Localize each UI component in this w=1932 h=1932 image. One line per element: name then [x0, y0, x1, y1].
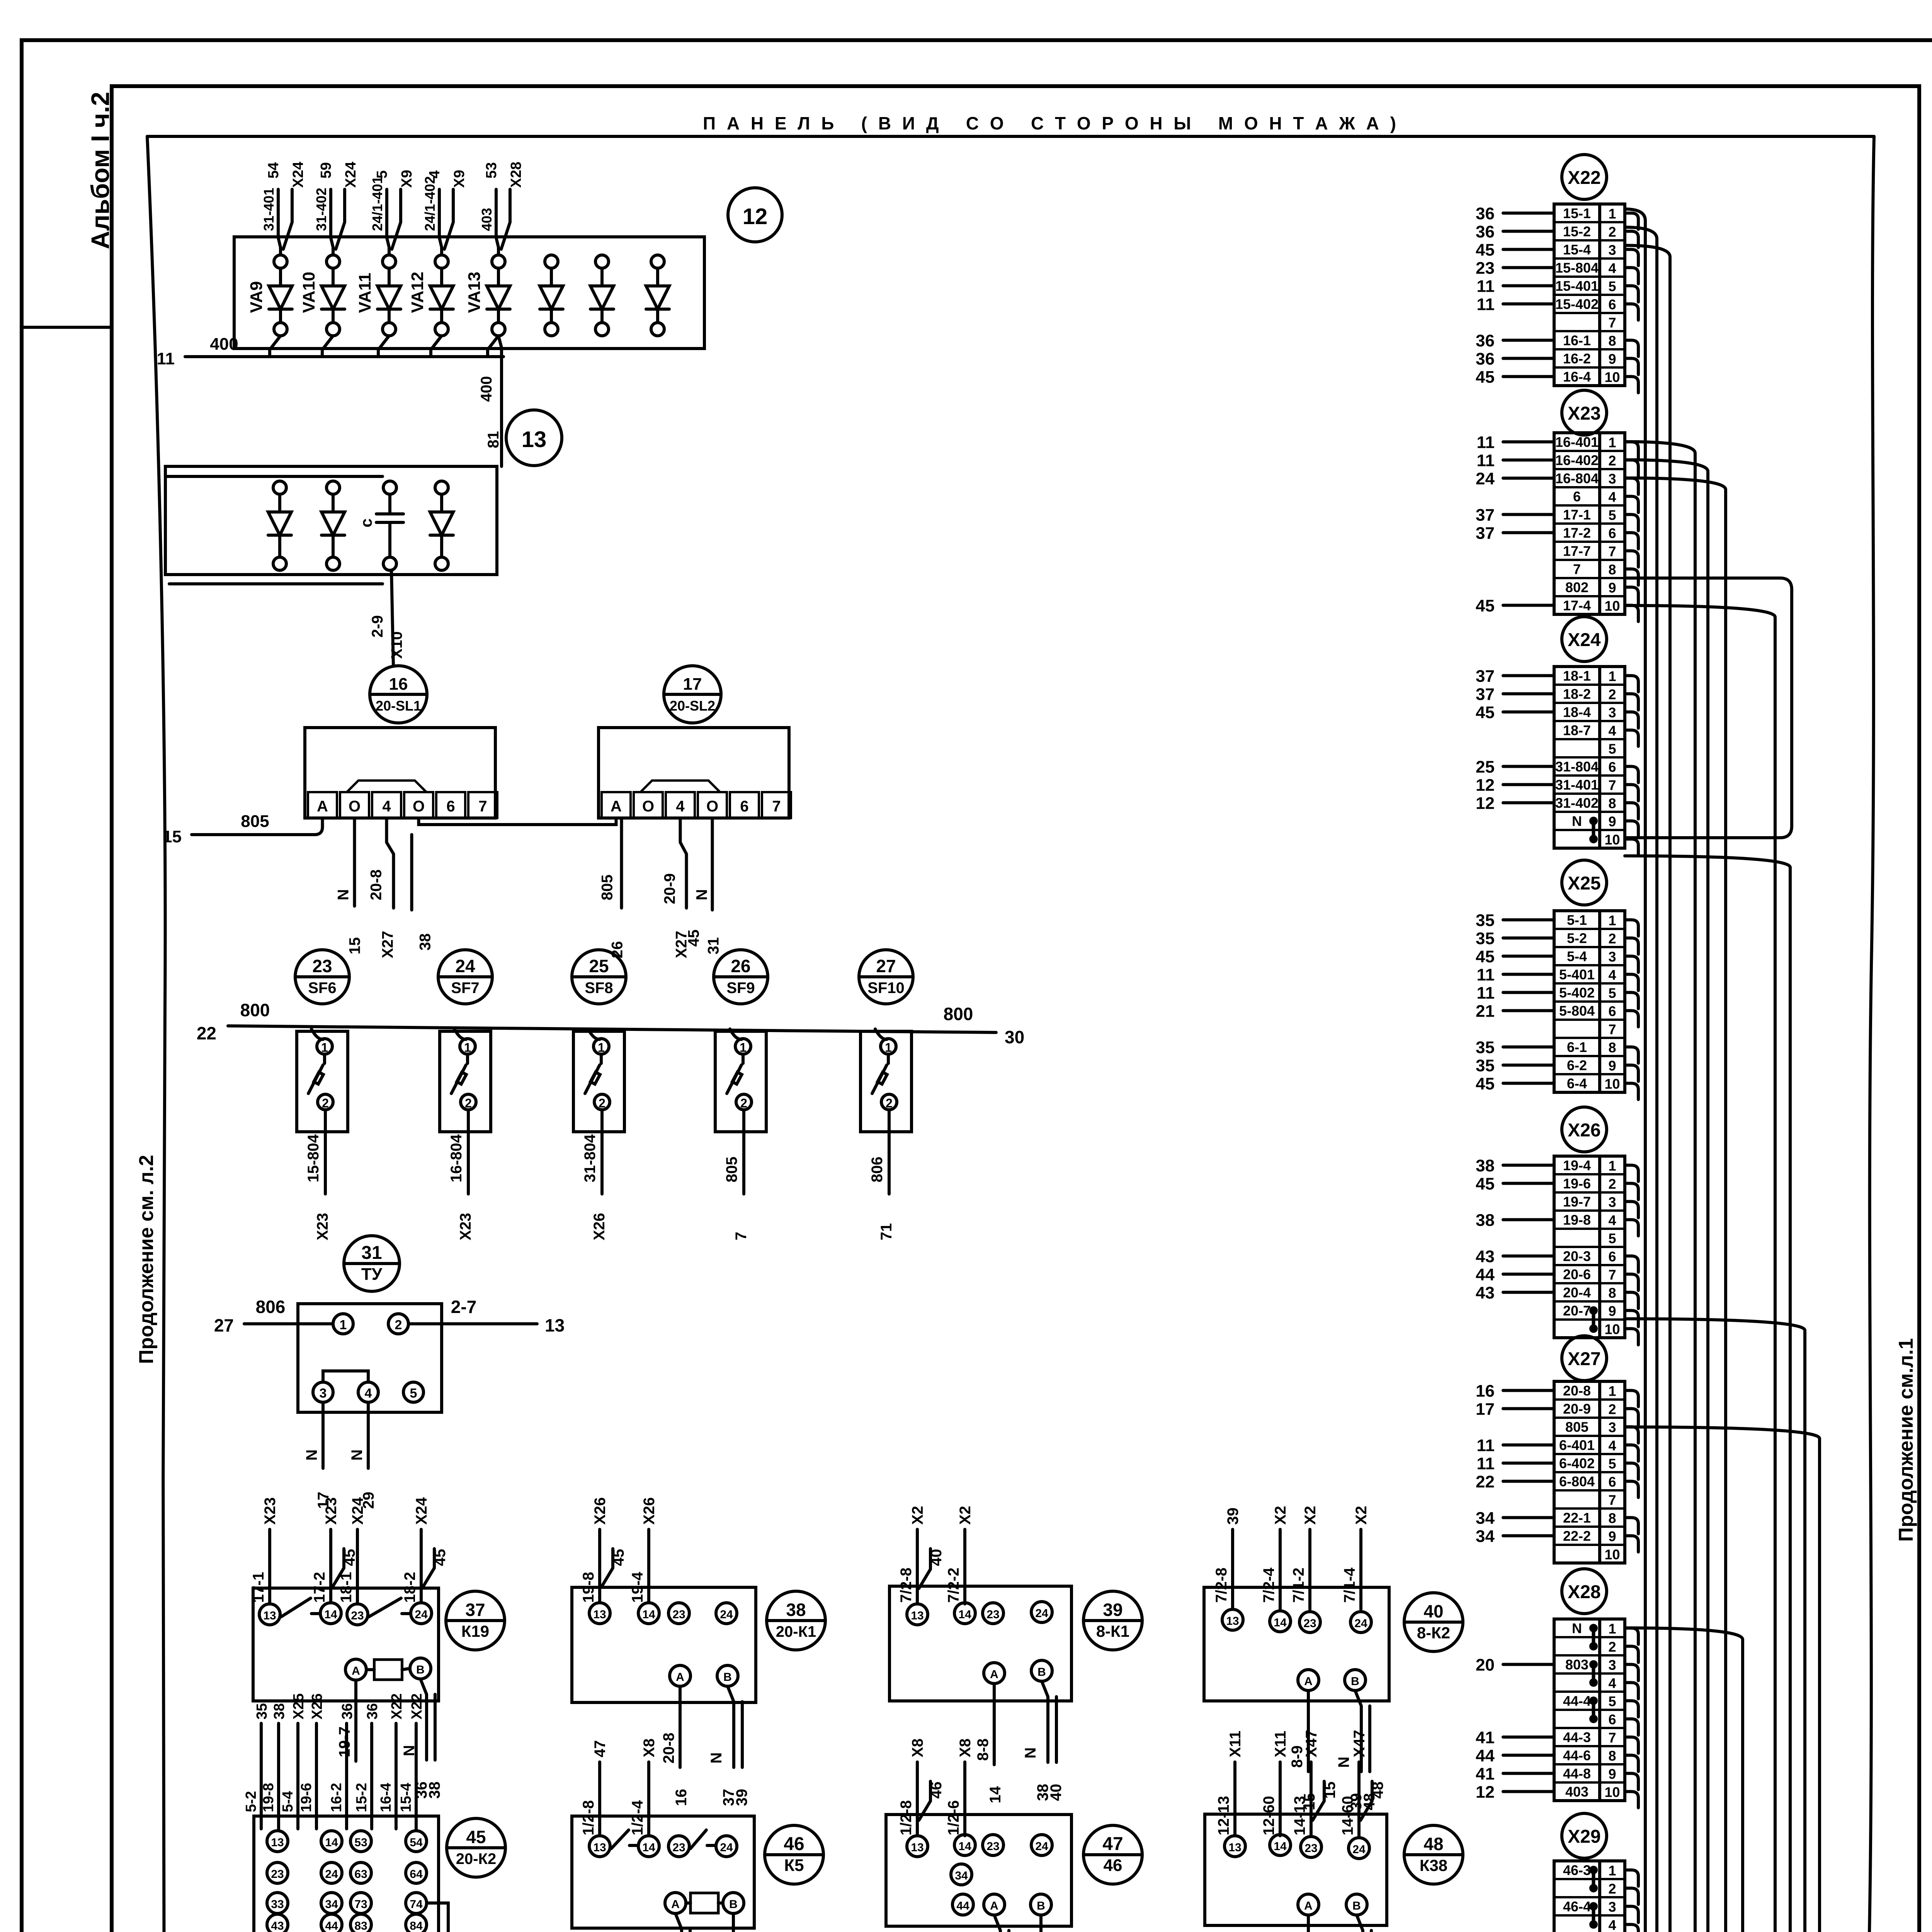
svg-text:20-SL1: 20-SL1: [376, 698, 421, 714]
svg-text:В: В: [416, 1663, 425, 1676]
wire 45 to X25:10: [1476, 1075, 1554, 1094]
margin note: continuation see sheet 2: [135, 1155, 158, 1364]
wire stub right of X22:8: [1625, 340, 1638, 357]
svg-text:4: 4: [1608, 1917, 1616, 1932]
wire stub right of X23:8: [1625, 569, 1638, 585]
svg-text:6-1: 6-1: [1567, 1039, 1587, 1055]
svg-text:31-401: 31-401: [1555, 777, 1599, 793]
svg-text:25: 25: [1476, 758, 1495, 777]
svg-text:N: N: [1572, 1621, 1582, 1636]
svg-text:1: 1: [885, 1041, 892, 1054]
wire 34 to X27:9: [1476, 1527, 1554, 1546]
svg-text:5-2: 5-2: [1567, 930, 1587, 946]
relay bubble 17 / 20-SL2: [664, 666, 721, 723]
terminal strip X24 header bubble: [1562, 617, 1607, 662]
svg-text:18-4: 18-4: [1563, 704, 1591, 720]
svg-text:2: 2: [1608, 1176, 1616, 1192]
svg-text:8: 8: [1608, 1040, 1616, 1056]
wire rail 10 of right bundle: [1625, 1427, 1820, 1932]
svg-text:45: 45: [341, 1549, 358, 1566]
wire 16-4 above box 45: [378, 1693, 405, 1829]
wire stub right of X29:2: [1625, 1888, 1638, 1905]
terminal strip X27 body: [1554, 1381, 1625, 1563]
wire 18-2 above box 37: [401, 1497, 449, 1603]
bubble 31 / TU: [344, 1236, 400, 1291]
svg-text:37: 37: [1476, 524, 1495, 543]
wire stub right of X27:1: [1625, 1391, 1638, 1407]
svg-text:40: 40: [1423, 1601, 1443, 1621]
terminal strip X26 body: [1554, 1156, 1625, 1338]
svg-text:5: 5: [1608, 985, 1616, 1001]
wire 35 to X25:9: [1476, 1056, 1554, 1075]
svg-text:SF6: SF6: [308, 980, 336, 997]
bus 800 (22 ... 30): [197, 1000, 1024, 1047]
svg-text:23: 23: [312, 956, 332, 976]
svg-text:44: 44: [1476, 1747, 1495, 1765]
breaker bubble 26 / SF9: [714, 950, 768, 1004]
svg-text:34: 34: [955, 1869, 968, 1882]
svg-text:7: 7: [1608, 1267, 1616, 1283]
svg-text:VA10: VA10: [299, 272, 318, 313]
svg-text:SF9: SF9: [726, 980, 755, 997]
wire 16-2 above box 45: [328, 1703, 355, 1829]
svg-text:22-1: 22-1: [1563, 1510, 1591, 1526]
svg-text:43: 43: [271, 1920, 284, 1932]
wire 17 to X27:2: [1476, 1400, 1554, 1419]
svg-text:7: 7: [1573, 561, 1581, 577]
svg-text:22-2: 22-2: [1563, 1528, 1591, 1544]
svg-text:6: 6: [1608, 1003, 1616, 1019]
svg-text:8-8: 8-8: [975, 1738, 992, 1761]
wire 22 to X27:6: [1476, 1473, 1554, 1492]
svg-text:23: 23: [672, 1608, 685, 1621]
svg-text:16-4: 16-4: [1563, 369, 1591, 385]
wire stub right of X28:10: [1625, 1792, 1638, 1808]
wire stub right of X23:1: [1625, 442, 1638, 458]
svg-text:X11: X11: [1272, 1731, 1289, 1757]
bubble 39 / 8-K1: [1083, 1591, 1142, 1650]
wire 20-8/16 below box 38 A: [660, 1686, 690, 1806]
terminal strip X23 body: [1554, 433, 1625, 614]
svg-text:13: 13: [1226, 1615, 1239, 1628]
wire stub right of X29:3: [1625, 1906, 1638, 1923]
wire stub right of X28:4: [1625, 1683, 1638, 1699]
svg-text:27: 27: [876, 956, 896, 976]
svg-text:14: 14: [642, 1608, 655, 1621]
wire stub right of X24:6: [1625, 767, 1638, 783]
wire stub right of X26:6: [1625, 1256, 1638, 1272]
svg-text:7: 7: [1608, 1022, 1616, 1037]
svg-text:с: с: [357, 519, 375, 527]
wire rail 6 of right bundle: [1625, 478, 1726, 1932]
svg-text:8: 8: [1608, 562, 1616, 578]
bubble 47 / 46: [1083, 1825, 1142, 1884]
svg-text:35: 35: [1476, 1038, 1495, 1057]
wire stub right of X26:8: [1625, 1293, 1638, 1309]
bubble 37 / K19: [446, 1591, 505, 1650]
wire 2-7 / 13 from TU:2: [408, 1297, 565, 1335]
svg-text:18-2: 18-2: [401, 1572, 418, 1603]
wire N/29 below TU:4: [349, 1402, 377, 1509]
svg-text:19-8: 19-8: [1563, 1212, 1591, 1228]
wire pair above diode VA11 (24/1-401 / 5 X9): [369, 170, 415, 255]
svg-text:6-4: 6-4: [1567, 1076, 1587, 1092]
svg-text:47: 47: [1102, 1834, 1123, 1854]
svg-text:2: 2: [886, 1096, 893, 1110]
wire N 37/39 below box 38 B: [708, 1686, 750, 1806]
terminal strip X22 body: [1554, 204, 1625, 386]
svg-text:X24: X24: [343, 162, 359, 188]
svg-text:35: 35: [1476, 911, 1495, 930]
svg-text:А: А: [611, 798, 622, 815]
svg-text:5: 5: [1608, 279, 1616, 294]
wire 1/2-8 above box 47: [898, 1738, 945, 1836]
svg-text:3: 3: [1608, 1899, 1616, 1915]
wire 8-9/15 below box 40 A: [1289, 1690, 1318, 1810]
svg-text:805: 805: [599, 874, 616, 900]
wire stub right of X25:5: [1625, 993, 1638, 1009]
svg-text:7: 7: [1608, 544, 1616, 560]
svg-text:16: 16: [673, 1789, 690, 1806]
breaker bubble 27 / SF10: [859, 950, 913, 1004]
svg-text:В: В: [1037, 1900, 1045, 1912]
wire 35 to X25:2: [1476, 929, 1554, 948]
svg-text:N: N: [694, 889, 711, 900]
circuit breaker SF9: [715, 1029, 766, 1132]
svg-text:13: 13: [593, 1608, 606, 1621]
svg-text:7/2-4: 7/2-4: [1260, 1567, 1277, 1603]
svg-text:8: 8: [1608, 1510, 1616, 1526]
wire 14-60 above box 48: [1339, 1730, 1386, 1836]
svg-text:4: 4: [1608, 1438, 1616, 1454]
svg-text:X24: X24: [1568, 630, 1601, 650]
svg-text:7/2-2: 7/2-2: [945, 1568, 962, 1603]
svg-text:45: 45: [432, 1549, 449, 1566]
wire 20 to X28:3: [1476, 1656, 1554, 1675]
svg-text:26: 26: [731, 956, 750, 976]
wire 41 to X28:7: [1476, 1728, 1554, 1747]
wire 45 to X26:2: [1476, 1175, 1554, 1194]
svg-text:VA12: VA12: [408, 272, 427, 313]
svg-text:400: 400: [210, 335, 238, 354]
wire pair above diode VA9 (31-401 / 54 X24): [261, 162, 306, 255]
jumper link X26:9-10: [1589, 1306, 1598, 1333]
svg-text:59: 59: [318, 162, 334, 179]
svg-text:12: 12: [743, 204, 768, 229]
position bubble 12: [728, 188, 782, 242]
svg-text:41: 41: [1476, 1765, 1495, 1784]
svg-text:X47: X47: [1303, 1730, 1320, 1757]
wire stub right of X26:4: [1625, 1220, 1638, 1236]
svg-text:19-6: 19-6: [298, 1783, 315, 1812]
diode VA13: [465, 255, 510, 336]
svg-text:13: 13: [545, 1315, 565, 1335]
wire stub right of X28:7: [1625, 1737, 1638, 1753]
svg-text:23: 23: [271, 1868, 284, 1881]
svg-text:20: 20: [1476, 1656, 1495, 1675]
svg-text:2-9: 2-9: [369, 615, 386, 638]
svg-text:24: 24: [1035, 1840, 1048, 1853]
wire 31-804 / X26 below breaker SF8: [582, 1110, 608, 1240]
svg-text:45: 45: [1476, 703, 1495, 722]
svg-text:802: 802: [1565, 580, 1588, 595]
wire stub right of X24:4: [1625, 730, 1638, 747]
wire 12-60 above box 48: [1260, 1731, 1289, 1836]
svg-text:1: 1: [464, 1041, 471, 1054]
svg-text:1: 1: [598, 1041, 605, 1054]
wire 36 to X22:2: [1476, 223, 1554, 241]
svg-text:44: 44: [956, 1900, 969, 1912]
svg-text:13: 13: [522, 427, 547, 452]
wire 19-8 above box 38: [580, 1497, 627, 1603]
terminal strip X24 body: [1554, 667, 1625, 848]
svg-text:46: 46: [784, 1834, 804, 1854]
svg-text:11: 11: [1476, 295, 1495, 314]
svg-text:В: В: [1037, 1666, 1046, 1679]
svg-text:9: 9: [1608, 1058, 1616, 1074]
svg-text:15-402: 15-402: [1555, 296, 1599, 312]
svg-text:3: 3: [1608, 242, 1616, 258]
wire rail 9 of right bundle: [1625, 1319, 1805, 1932]
margin note: continuation see sheet 1 (right side): [1895, 1338, 1917, 1542]
diode VA11: [355, 255, 401, 336]
svg-text:25: 25: [589, 956, 609, 976]
svg-text:9: 9: [1608, 351, 1616, 367]
svg-text:44-4: 44-4: [1563, 1693, 1591, 1709]
svg-text:14: 14: [1274, 1616, 1287, 1629]
bubble 38 / 20-K1: [767, 1591, 825, 1650]
wire 19-6 above box 45: [298, 1693, 325, 1829]
svg-text:23: 23: [986, 1840, 999, 1853]
svg-text:9: 9: [1608, 1529, 1616, 1544]
wire stub right of X26:9: [1625, 1311, 1638, 1327]
svg-text:А: А: [1304, 1675, 1313, 1688]
svg-text:6-804: 6-804: [1559, 1474, 1595, 1490]
svg-text:2: 2: [1608, 224, 1616, 240]
wire stub right of X28:3: [1625, 1665, 1638, 1681]
svg-text:7/1-4: 7/1-4: [1341, 1567, 1358, 1603]
svg-text:45: 45: [1476, 368, 1495, 387]
svg-text:71: 71: [878, 1223, 895, 1241]
svg-text:31: 31: [361, 1243, 382, 1263]
svg-text:11: 11: [1476, 277, 1495, 296]
svg-text:6: 6: [1608, 1474, 1616, 1490]
svg-text:30: 30: [1005, 1027, 1024, 1047]
svg-text:20-8: 20-8: [1563, 1383, 1591, 1399]
svg-text:2: 2: [1608, 1881, 1616, 1897]
relay unit box 16 (20-SL1): [305, 728, 497, 818]
svg-text:X9: X9: [451, 170, 468, 188]
svg-text:15-804: 15-804: [1555, 260, 1599, 276]
relay contact box 40 (8-K2): [1204, 1587, 1389, 1701]
diode assembly box 12: [234, 237, 704, 349]
svg-text:X2: X2: [1302, 1506, 1319, 1525]
wire stub right of X23:10: [1625, 605, 1638, 622]
diode (box 13): [430, 481, 453, 570]
svg-text:44: 44: [1476, 1265, 1495, 1284]
svg-text:X23: X23: [314, 1213, 331, 1240]
svg-text:17-1: 17-1: [1563, 507, 1591, 523]
svg-text:17-4: 17-4: [1563, 598, 1591, 614]
svg-text:46: 46: [1104, 1856, 1122, 1875]
svg-text:5-402: 5-402: [1559, 985, 1595, 1001]
svg-text:17-1: 17-1: [250, 1572, 267, 1603]
svg-text:X24: X24: [413, 1497, 430, 1525]
svg-text:7: 7: [1608, 777, 1616, 793]
svg-text:12: 12: [1476, 1783, 1495, 1802]
svg-text:N: N: [1022, 1747, 1039, 1759]
svg-text:10: 10: [1604, 369, 1620, 385]
svg-text:24: 24: [1354, 1617, 1367, 1630]
svg-text:23: 23: [986, 1608, 999, 1621]
wires N/15, 20-8/X27, 38 below relay 16: [335, 818, 434, 958]
wire 19-4 above box 38: [629, 1497, 658, 1603]
svg-text:22: 22: [1476, 1473, 1495, 1492]
svg-text:10: 10: [1604, 1547, 1620, 1563]
bubble 45 / 20-K2: [447, 1818, 505, 1877]
position bubble 13: [506, 410, 562, 466]
wire stub right of X27:9: [1625, 1536, 1638, 1552]
wire 43 to X26:8: [1476, 1284, 1554, 1303]
svg-text:4: 4: [1608, 260, 1616, 276]
svg-text:А: А: [990, 1900, 998, 1912]
svg-text:39: 39: [733, 1789, 750, 1806]
svg-text:9: 9: [1608, 1303, 1616, 1319]
svg-text:16-2: 16-2: [328, 1783, 345, 1812]
svg-text:24: 24: [415, 1608, 428, 1621]
wire 21 to X25:6: [1476, 1002, 1554, 1021]
svg-text:34: 34: [1476, 1509, 1495, 1528]
svg-text:X26: X26: [641, 1497, 658, 1525]
svg-text:14: 14: [325, 1836, 338, 1849]
diode VD13: [646, 255, 669, 336]
wire 36 to X22:8: [1476, 332, 1554, 350]
svg-text:24: 24: [1352, 1843, 1366, 1856]
wire rail 11 of right bundle: [1625, 1628, 1743, 1932]
wire stub right of X25:10: [1625, 1083, 1638, 1100]
terminal strip X29 body: [1554, 1861, 1625, 1932]
svg-text:2: 2: [740, 1096, 747, 1110]
svg-text:В: В: [729, 1898, 738, 1911]
svg-text:46-3: 46-3: [1563, 1862, 1591, 1878]
svg-text:403: 403: [1565, 1784, 1588, 1800]
svg-text:VA9: VA9: [247, 281, 266, 313]
wire 12 to X24:7: [1476, 776, 1554, 795]
wire stub right of X26:10: [1625, 1329, 1638, 1345]
svg-text:36: 36: [1476, 223, 1495, 241]
svg-text:53: 53: [354, 1836, 367, 1849]
svg-text:31-402: 31-402: [1555, 795, 1599, 811]
svg-text:24/1-402: 24/1-402: [422, 176, 438, 231]
svg-text:16: 16: [389, 675, 408, 694]
svg-text:В: В: [1352, 1900, 1361, 1912]
terminal strip X25 header bubble: [1562, 860, 1607, 905]
wire rail 1 of right bundle: [1625, 209, 1645, 1932]
svg-text:X28: X28: [1568, 1582, 1600, 1602]
svg-text:5: 5: [1608, 1456, 1616, 1472]
svg-text:73: 73: [354, 1898, 367, 1911]
wire rail 5 of right bundle: [1625, 460, 1708, 1932]
wire 38 to X26:1: [1476, 1156, 1554, 1175]
breaker bubble 25 / SF8: [572, 950, 626, 1004]
svg-text:X8: X8: [641, 1738, 658, 1757]
circuit breaker SF10: [861, 1029, 912, 1132]
svg-text:X2: X2: [1272, 1506, 1289, 1525]
svg-text:X26: X26: [592, 1497, 609, 1525]
wire stub right of X27:2: [1625, 1409, 1638, 1425]
svg-text:23: 23: [1303, 1617, 1316, 1630]
svg-text:31: 31: [705, 937, 722, 955]
wire stub right of X22:6: [1625, 304, 1638, 320]
wire 2-9 / X10 from capacitor to relay 16: [369, 570, 405, 665]
svg-text:16-804: 16-804: [1555, 471, 1599, 486]
svg-text:5: 5: [1608, 1231, 1616, 1247]
svg-text:15-1: 15-1: [1563, 206, 1591, 221]
wire 15-2 above box 45: [354, 1703, 381, 1829]
terminal strip X28 body: [1554, 1619, 1625, 1801]
svg-text:X26: X26: [309, 1693, 325, 1719]
wire stub right of X28:8: [1625, 1755, 1638, 1772]
svg-text:4: 4: [382, 798, 391, 815]
svg-text:3: 3: [1608, 1420, 1616, 1435]
svg-text:44: 44: [325, 1920, 338, 1932]
svg-text:К19: К19: [461, 1622, 489, 1640]
wire stub right of X27:8: [1625, 1518, 1638, 1534]
svg-text:40: 40: [1048, 1784, 1065, 1801]
svg-text:А: А: [1304, 1900, 1313, 1912]
diode VA12: [408, 255, 453, 336]
wire 27 / 806 into TU:1: [214, 1297, 333, 1335]
wire 35 to X25:8: [1476, 1038, 1554, 1057]
svg-text:2: 2: [1608, 687, 1616, 702]
svg-text:8: 8: [1608, 1748, 1616, 1764]
svg-text:11: 11: [1476, 433, 1495, 452]
svg-text:10: 10: [1604, 1076, 1620, 1092]
wire 7/1-2 above box 40: [1290, 1506, 1319, 1609]
svg-text:16-4: 16-4: [378, 1783, 394, 1812]
svg-text:39: 39: [1103, 1600, 1122, 1620]
svg-text:38: 38: [1476, 1156, 1495, 1175]
svg-text:36: 36: [364, 1703, 381, 1719]
svg-text:36: 36: [1476, 204, 1495, 223]
svg-text:14: 14: [1274, 1840, 1287, 1853]
wire stub right of X24:7: [1625, 785, 1638, 801]
svg-text:3: 3: [1608, 949, 1616, 965]
svg-text:9: 9: [1608, 1766, 1616, 1782]
svg-text:X27: X27: [1568, 1349, 1600, 1369]
wire stub right of X22:3: [1625, 250, 1638, 266]
svg-text:5-804: 5-804: [1559, 1003, 1595, 1019]
svg-text:2: 2: [1608, 931, 1616, 947]
svg-text:X9: X9: [399, 170, 415, 188]
svg-text:23: 23: [1304, 1842, 1317, 1855]
relay contact box 45 (20-K2): [254, 1816, 439, 1932]
svg-text:24: 24: [1035, 1607, 1048, 1620]
wire 12-13 above box 48: [1215, 1731, 1244, 1836]
wire 35 to X25:1: [1476, 911, 1554, 930]
svg-text:N: N: [349, 1449, 366, 1461]
svg-text:31-804: 31-804: [582, 1134, 599, 1182]
wire 12 to X24:8: [1476, 794, 1554, 813]
svg-text:7: 7: [1608, 315, 1616, 331]
relay contact box 46 (K5): [572, 1816, 754, 1928]
diode VD12: [590, 255, 614, 336]
svg-text:5-2: 5-2: [243, 1791, 259, 1812]
svg-text:1: 1: [1608, 1621, 1616, 1637]
svg-text:806: 806: [869, 1156, 886, 1182]
svg-text:20-8: 20-8: [660, 1733, 677, 1764]
svg-text:19-4: 19-4: [1563, 1158, 1591, 1173]
